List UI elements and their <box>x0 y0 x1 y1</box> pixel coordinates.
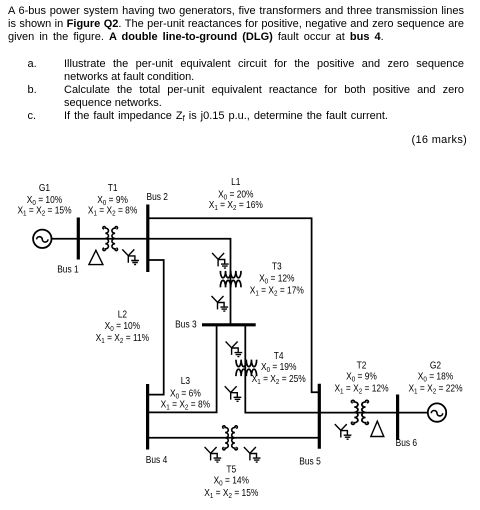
svg-text:T1: T1 <box>108 182 118 193</box>
bus bar Bus 1 <box>77 218 80 260</box>
wye-ground symbol of T3 bottom <box>212 296 229 311</box>
svg-text:X0 = 19%: X0 = 19% <box>261 361 296 374</box>
delta winding symbol of T2 <box>371 421 384 436</box>
svg-text:L1: L1 <box>231 176 240 187</box>
generator G1 <box>33 230 51 248</box>
wire line L3 Bus3 to Bus4 <box>148 325 217 413</box>
bus bar Bus 5 <box>318 384 321 449</box>
svg-text:L3: L3 <box>181 376 190 387</box>
svg-text:L2: L2 <box>118 309 127 320</box>
label G2 <box>408 360 462 396</box>
item b label <box>28 84 37 97</box>
item b line 2 <box>64 97 162 110</box>
item a label <box>28 58 37 71</box>
wye-ground symbol of T5 right <box>244 447 261 462</box>
paragraph line 1 <box>8 5 464 18</box>
svg-text:X1 = X2 = 11%: X1 = X2 = 11% <box>96 332 149 345</box>
transformer T5 windings <box>223 426 238 450</box>
label T3 <box>250 261 304 298</box>
item a line 1 <box>64 58 464 71</box>
bus bar Bus 3 <box>202 323 256 326</box>
wire Bus4 to Bus5 through T5 <box>148 437 319 439</box>
transformer T1 windings <box>103 227 118 251</box>
svg-text:Bus 6: Bus 6 <box>396 437 417 448</box>
item a line 2 <box>64 71 194 84</box>
marks <box>412 134 468 147</box>
svg-text:X1 = X2 = 8%: X1 = X2 = 8% <box>88 205 137 218</box>
delta winding symbol of T1 <box>89 250 103 264</box>
svg-text:X1 = X2 = 16%: X1 = X2 = 16% <box>209 199 263 212</box>
svg-text:G2: G2 <box>430 360 441 371</box>
bus bar Bus 6 <box>396 395 399 441</box>
paragraph line 2 <box>8 18 464 31</box>
svg-text:X0 = 9%: X0 = 9% <box>346 371 377 384</box>
wire Bus2 to Bus3 through T3 <box>148 239 231 325</box>
label T5 <box>204 464 258 500</box>
label T2 <box>334 360 388 396</box>
svg-text:X1 = X2 = 8%: X1 = X2 = 8% <box>161 399 210 412</box>
wye-ground symbol of T2 <box>335 424 352 439</box>
svg-text:T5: T5 <box>226 464 236 475</box>
svg-text:T3: T3 <box>272 261 282 272</box>
label L2 <box>96 309 149 345</box>
bus bar Bus 4 <box>146 384 149 450</box>
svg-text:X1 = X2 = 22%: X1 = X2 = 22% <box>408 383 462 396</box>
svg-text:Bus 3: Bus 3 <box>175 319 196 330</box>
svg-text:X1 = X2 = 15%: X1 = X2 = 15% <box>204 487 258 500</box>
bus bar Bus 2 <box>146 205 149 273</box>
svg-text:Bus 5: Bus 5 <box>299 456 320 467</box>
wire line L2 Bus2 to Bus4 <box>148 260 164 395</box>
transformer T3 windings <box>220 271 241 287</box>
item c line 1 <box>64 110 388 125</box>
item b line 1 <box>64 84 464 97</box>
label T1 <box>88 182 137 217</box>
svg-text:T4: T4 <box>274 350 284 361</box>
svg-text:G1: G1 <box>39 182 50 193</box>
wire line L1 Bus2 to Bus5 <box>148 218 319 392</box>
label T4 <box>252 350 306 386</box>
paragraph line 3 <box>8 31 384 44</box>
svg-text:X1 = X2 = 12%: X1 = X2 = 12% <box>334 383 388 396</box>
svg-text:T2: T2 <box>357 360 367 371</box>
svg-text:X0 = 18%: X0 = 18% <box>418 371 453 384</box>
wire G1 to Bus2 through T1 <box>52 238 148 240</box>
label L3 <box>161 376 210 412</box>
svg-text:X1 = X2 = 25%: X1 = X2 = 25% <box>252 373 306 386</box>
transformer T4 windings <box>236 360 257 376</box>
label L1 <box>209 176 263 212</box>
svg-text:X1 = X2 = 15%: X1 = X2 = 15% <box>17 205 71 218</box>
svg-text:Bus 2: Bus 2 <box>146 192 167 203</box>
label G1 <box>17 182 71 217</box>
svg-text:Bus 1: Bus 1 <box>57 264 78 275</box>
svg-text:X0 = 12%: X0 = 12% <box>259 273 294 286</box>
wye-ground symbol of T5 left <box>205 447 222 462</box>
wye-ground symbol of T4 top <box>226 342 243 357</box>
wye-ground symbol of T4 bottom <box>225 386 242 401</box>
wye-ground symbol of T3 top <box>212 253 229 268</box>
item c label <box>28 110 37 123</box>
svg-text:X1 = X2 = 17%: X1 = X2 = 17% <box>250 285 304 298</box>
svg-text:Bus 4: Bus 4 <box>146 454 167 465</box>
wire Bus3 to Bus5 through T4 <box>245 325 319 413</box>
wye-ground symbol of T1 <box>122 249 139 264</box>
generator G2 <box>428 403 446 421</box>
svg-text:X0 = 14%: X0 = 14% <box>214 475 249 488</box>
svg-text:X0 = 10%: X0 = 10% <box>105 320 140 333</box>
wire Bus5 to G2 through T2 <box>319 412 428 414</box>
transformer T2 windings <box>351 400 368 424</box>
